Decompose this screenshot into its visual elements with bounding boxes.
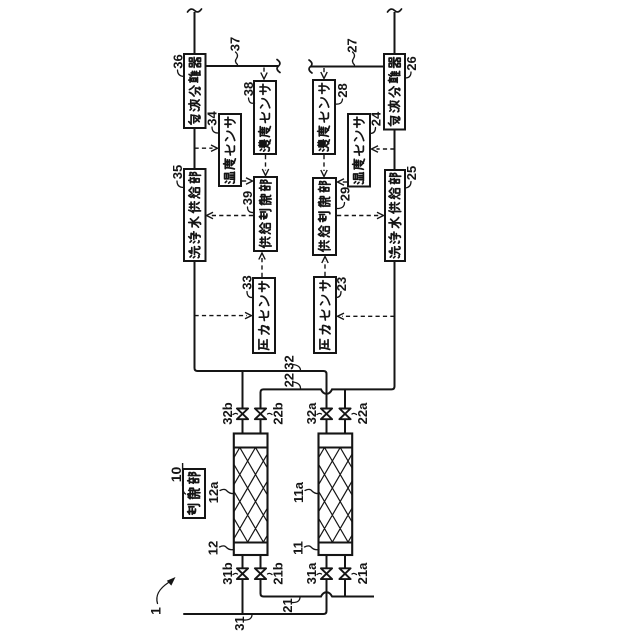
wire: line 21 hop over valve-31a drop: [321, 592, 332, 596]
wire: valve 32b to vessel 12 top: [242, 420, 244, 434]
svg-text:12a: 12a: [206, 481, 221, 503]
svg-text:32a: 32a: [304, 402, 319, 424]
dashed: line 37 to concentration sensor 38: [263, 68, 265, 74]
wire: valve 22a to vessel 11 top: [344, 420, 346, 434]
wire: right column top segment: [394, 12, 396, 54]
vessel 11 cap lines: [319, 447, 353, 449]
wire: line 37 from box36 to break: [206, 65, 279, 67]
box 26 gas-liquid separator (気液分離器): [384, 54, 405, 130]
valve 31b: [237, 568, 248, 579]
svg-text:31a: 31a: [304, 562, 319, 584]
box 29 supply control unit (供給制御部): [313, 178, 336, 255]
svg-text:1: 1: [148, 607, 164, 615]
svg-text:22: 22: [282, 373, 297, 387]
svg-text:21a: 21a: [355, 562, 370, 584]
svg-text:10: 10: [168, 467, 184, 483]
wire: valve 31a down to line 31 corner: [184, 579, 327, 614]
wire: left column from box35 down, corner into line 32: [195, 261, 327, 409]
valve 32b: [237, 409, 248, 420]
wire: right column from box25 down, corner into line 22: [332, 261, 395, 389]
svg-text:25: 25: [404, 166, 419, 180]
wire: line 22 left part, corner down to valve 22b: [261, 389, 322, 408]
dashed: pipe to temperature sensor 24: [377, 148, 395, 150]
dashed: sensor 28 to supply control 29: [323, 155, 325, 171]
wire: branch line 32 down to valve 32b: [242, 371, 244, 409]
dashed: line 27 to concentration sensor 28: [323, 68, 325, 73]
svg-text:31b: 31b: [220, 562, 235, 584]
svg-text:11: 11: [291, 541, 306, 555]
vessel 11 catalyst crosshatch: [144, 448, 506, 543]
svg-text:37: 37: [228, 37, 243, 51]
box 10 control unit (制御部): [183, 469, 205, 518]
svg-text:29: 29: [338, 187, 353, 201]
valve 21a: [339, 568, 350, 579]
wire: left column between box36 and box35: [194, 128, 196, 169]
box 28 concentration sensor (濃度センサ): [313, 80, 335, 154]
svg-text:26: 26: [404, 56, 419, 70]
svg-text:32: 32: [282, 355, 297, 369]
wire: right column between box26 and box25: [394, 130, 396, 171]
wire: line 27 from break to box26: [311, 66, 384, 68]
svg-text:21: 21: [280, 598, 295, 612]
dashed: sensor 34 to supply control 39: [242, 180, 249, 182]
vessel 12 catalyst crosshatch: [59, 448, 421, 543]
svg-text:32b: 32b: [220, 402, 235, 424]
pipe break line 37 right end: [277, 60, 280, 73]
svg-text:34: 34: [205, 111, 220, 126]
dashed: pipe to pressure sensor 23: [342, 315, 395, 317]
svg-text:35: 35: [170, 165, 185, 179]
dashed: pipe to pressure sensor 33: [195, 315, 248, 317]
svg-text:11a: 11a: [291, 481, 306, 503]
box 23 pressure sensor (圧力センサ): [314, 277, 336, 353]
svg-text:36: 36: [171, 54, 186, 68]
vessel 12 body: [234, 434, 268, 556]
wire: vessel11 bottom stub to valve 21a: [344, 555, 346, 568]
box 39 supply control unit (供給制御部): [254, 177, 277, 251]
wire: left column top segment: [194, 12, 196, 54]
valve 32a: [321, 409, 332, 420]
box 35 washing water supply (洗浄水供給部): [184, 169, 206, 261]
svg-text:39: 39: [240, 191, 255, 205]
dashed: supply control 29 to washing supply 25: [337, 215, 379, 217]
dashed: sensor 38 to supply control 39: [265, 155, 267, 171]
wire: valve 22b to vessel 12 top: [260, 420, 262, 434]
svg-text:24: 24: [369, 111, 384, 126]
valve 22a: [339, 409, 350, 420]
vessel 11 body: [319, 434, 353, 556]
box 24 temperature sensor (温度センサ): [348, 114, 370, 187]
wire: vessel12 bottom stub to valve 21b: [260, 555, 262, 568]
svg-text:21b: 21b: [271, 562, 286, 584]
leader arrow for label 1: [157, 583, 169, 604]
valve 31a: [321, 568, 332, 579]
wire: valve 31b down to line 31: [242, 579, 244, 614]
svg-text:31: 31: [232, 616, 247, 630]
dashed: sensor 24 to supply control 29: [342, 181, 348, 183]
valve 21b: [255, 568, 266, 579]
pipe break top right: [388, 9, 402, 12]
svg-text:23: 23: [334, 277, 349, 291]
svg-text:33: 33: [240, 275, 255, 289]
wire: vessel11 bottom stub to valve 31a: [326, 555, 328, 568]
box 33 pressure sensor (圧力センサ): [253, 278, 275, 353]
pipe break top left: [188, 9, 202, 12]
svg-text:22b: 22b: [271, 402, 286, 424]
wire: vessel12 bottom stub to valve 31b: [242, 555, 244, 568]
wire: line 21 right part to open end: [332, 596, 374, 598]
svg-text:28: 28: [335, 83, 350, 97]
dashed: sensor 33 to supply control 39: [261, 258, 263, 277]
wire: line 22 hop under line-32 drop: [321, 389, 332, 393]
valve 22b: [255, 409, 266, 420]
svg-text:12: 12: [206, 541, 221, 555]
svg-text:27: 27: [345, 38, 360, 52]
wire: valve 21a down to line 21: [344, 579, 346, 596]
box 25 washing water supply (洗浄水供給部): [385, 170, 405, 261]
dashed: sensor 23 to supply control 29: [324, 261, 326, 276]
wire: valve 21b down, corner into line 21: [261, 579, 322, 596]
wire: branch line 22 down to valve 22a: [344, 389, 346, 408]
box 36 gas-liquid separator (気液分離器): [184, 54, 206, 128]
box 34 temperature sensor (温度センサ): [219, 114, 241, 186]
box 38 concentration sensor (濃度センサ): [254, 81, 276, 154]
wire: valve 32a to vessel 11 top: [326, 420, 328, 434]
pipe break line 27 left end: [309, 60, 312, 73]
dashed: supply control 39 to washing supply 35: [211, 215, 253, 217]
svg-text:22a: 22a: [355, 402, 370, 424]
vessel 12 cap lines: [234, 447, 268, 449]
dashed: pipe to temperature sensor 34: [195, 147, 213, 149]
svg-text:38: 38: [241, 82, 256, 96]
